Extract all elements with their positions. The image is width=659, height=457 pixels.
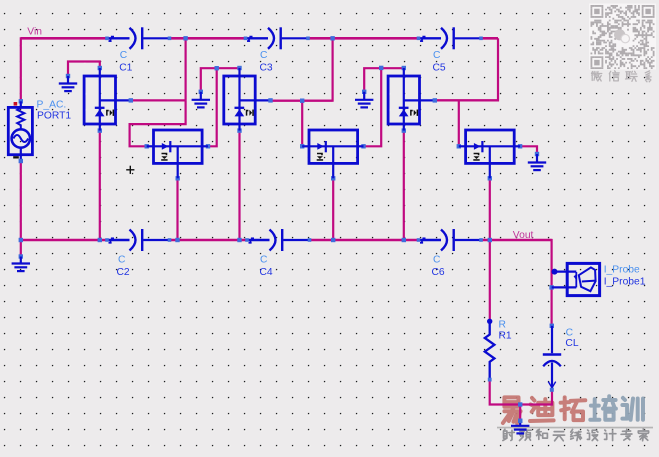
svg-text:C1: C1 xyxy=(119,63,132,74)
svg-text:Vin: Vin xyxy=(27,27,42,38)
svg-text:C2: C2 xyxy=(117,267,130,278)
svg-text:CL: CL xyxy=(565,338,578,349)
svg-text:C: C xyxy=(566,327,574,338)
svg-text:I_Probe: I_Probe xyxy=(604,264,640,275)
svg-text:C: C xyxy=(260,255,268,266)
svg-text:C6: C6 xyxy=(432,267,445,278)
svg-text:P_AC.: P_AC. xyxy=(37,100,67,111)
svg-text:C: C xyxy=(118,255,126,266)
svg-text:C5: C5 xyxy=(433,63,446,74)
svg-text:R: R xyxy=(499,320,506,331)
svg-text:C3: C3 xyxy=(260,63,273,74)
svg-text:C: C xyxy=(433,50,441,61)
svg-text:PORT1: PORT1 xyxy=(37,111,71,122)
svg-text:C: C xyxy=(120,50,128,61)
svg-text:C: C xyxy=(433,255,441,266)
svg-text:C: C xyxy=(260,50,268,61)
svg-text:Vout: Vout xyxy=(513,230,534,241)
svg-text:C4: C4 xyxy=(260,267,273,278)
svg-text:I_Probe1: I_Probe1 xyxy=(604,276,646,287)
svg-text:R1: R1 xyxy=(499,330,512,341)
